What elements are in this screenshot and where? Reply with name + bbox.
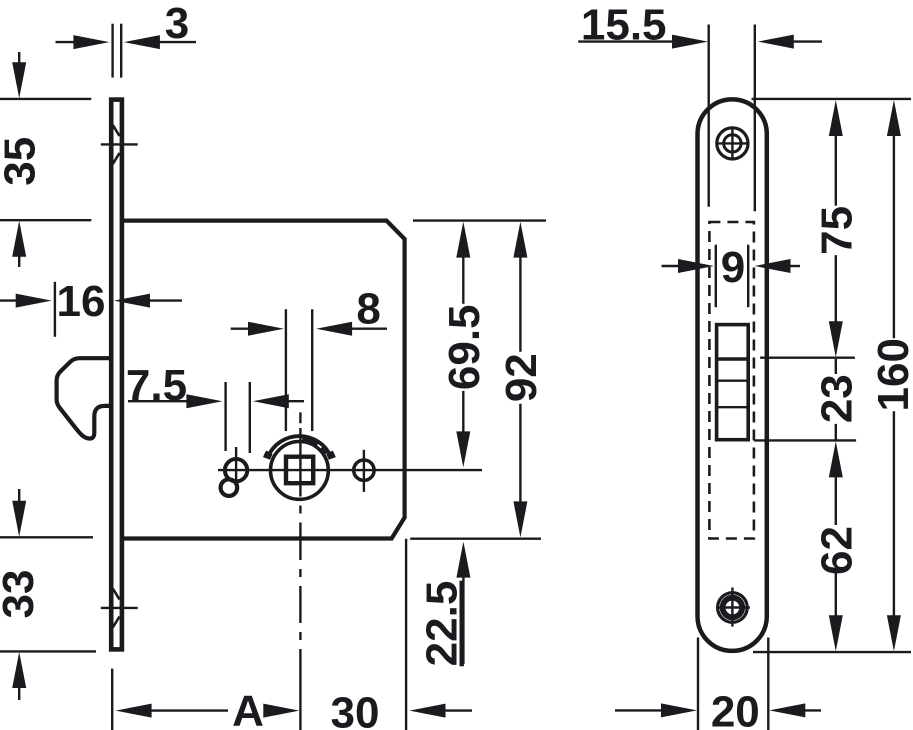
- svg-text:3: 3: [165, 0, 189, 48]
- dim 20 (plate width): [615, 638, 821, 730]
- svg-text:35: 35: [0, 137, 45, 186]
- dim 22.5 (underlined, case bottom offset): [418, 542, 471, 667]
- dim 30 (spindle center to case rear): [331, 539, 472, 730]
- latch slot thin divider 2: [717, 406, 749, 408]
- stop pin hole small lobe: [221, 479, 238, 496]
- stop pin hole vertical centerline: [235, 447, 237, 493]
- latch slot thin divider 1: [717, 380, 749, 382]
- spring clip right flared foot: [329, 452, 332, 458]
- dim 160 (plate length): [869, 100, 913, 651]
- dim 33 (case bottom to plate bottom): [0, 489, 96, 700]
- svg-text:A: A: [232, 686, 264, 730]
- top screw hole inner: [724, 135, 741, 152]
- svg-text:9: 9: [721, 243, 745, 292]
- dim A (backset): [112, 669, 299, 730]
- dim 69.5 (case top to spindle center): [413, 221, 546, 468]
- svg-text:33: 33: [0, 570, 43, 619]
- svg-text:7.5: 7.5: [126, 361, 187, 410]
- faceplate break mark bottom: [101, 589, 138, 628]
- vertical dash-dot centerline through hub: [299, 412, 301, 730]
- spring clip thin arc seg2: [321, 448, 326, 454]
- right fixing hole: [354, 460, 374, 480]
- svg-text:8: 8: [356, 285, 380, 334]
- svg-text:160: 160: [869, 338, 913, 411]
- bottom screw hole outer: [718, 593, 748, 623]
- spindle square hole: [286, 457, 313, 484]
- bottom screw hole inner ring: [723, 598, 743, 618]
- bottom screw hole cross: [716, 588, 750, 627]
- svg-text:16: 16: [57, 277, 106, 326]
- svg-text:69.5: 69.5: [440, 304, 489, 390]
- dim 35 (top of plate to case top): [0, 52, 91, 267]
- svg-text:92: 92: [497, 353, 546, 402]
- spring clip thin arc seg1: [302, 439, 317, 445]
- hidden lock case dashed rect: [709, 222, 754, 539]
- spring clip left flared foot: [267, 452, 270, 458]
- svg-text:20: 20: [711, 687, 760, 730]
- svg-text:62: 62: [812, 526, 861, 575]
- latch slot heavy divider: [717, 357, 749, 361]
- spindle hub circle: [271, 442, 329, 500]
- svg-text:75: 75: [812, 206, 861, 255]
- faceplate (edge view): [111, 100, 122, 650]
- right fixing hole vertical centerline: [363, 450, 365, 492]
- dim 3 (faceplate thickness): [56, 0, 197, 78]
- faceplate plate (stadium): [698, 99, 767, 651]
- latch slot (front): [717, 325, 749, 440]
- dim 7.5 (stop hole dia): [126, 361, 304, 453]
- dim 16 (latch protrusion): [0, 277, 182, 337]
- dim 92 (case height): [410, 222, 546, 539]
- latch bolt: [57, 358, 111, 438]
- dim 75 (plate top to latch): [752, 99, 912, 358]
- lock body outline: [122, 221, 405, 539]
- svg-text:30: 30: [331, 688, 380, 730]
- dim 9 (latch slot width): [662, 243, 801, 307]
- horizontal centerline through circles: [218, 469, 482, 471]
- svg-text:22.5: 22.5: [418, 581, 467, 667]
- svg-text:23: 23: [812, 374, 861, 423]
- spring clip thick arc over hub: [268, 436, 331, 457]
- dim 15.5: [578, 0, 822, 211]
- dim 23 (latch height): [754, 359, 861, 441]
- top screw hole outer: [717, 128, 748, 159]
- faceplate break mark top: [101, 125, 138, 164]
- stop pin hole (keyhole shaped, big circle): [225, 459, 247, 481]
- dim 8 (spindle square): [231, 285, 387, 431]
- dim 62 (latch to plate bottom): [753, 441, 911, 652]
- top screw hole cross: [716, 127, 749, 160]
